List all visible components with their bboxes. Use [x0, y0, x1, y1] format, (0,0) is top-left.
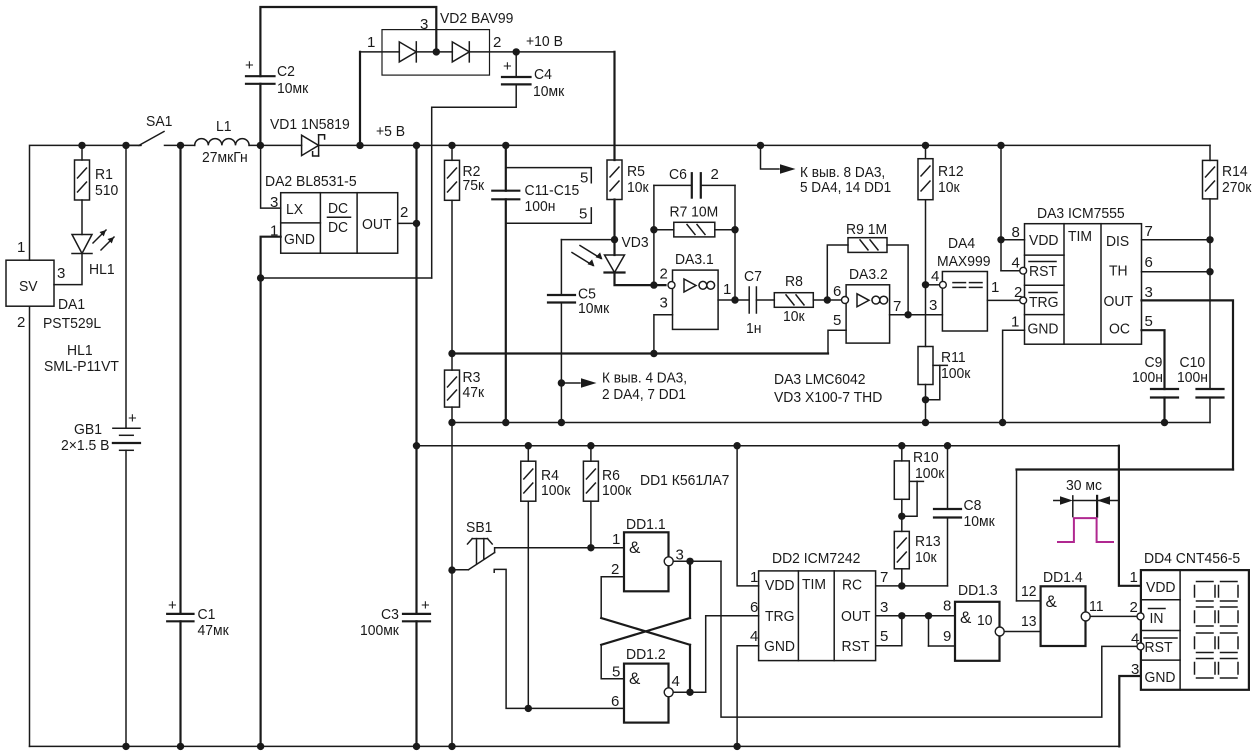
wire DA1 pin3 to HL1: [54, 254, 82, 285]
wire C4 bottom hook to ground column: [432, 84, 517, 278]
pin 6 DA3.2: [842, 297, 849, 304]
svg-text:TIM: TIM: [802, 576, 826, 593]
svg-text:C4: C4: [534, 66, 552, 83]
svg-text:1: 1: [723, 281, 731, 298]
node DA3.1 pin2 junction: [650, 281, 657, 288]
node R6 top: [587, 442, 594, 449]
diode VD2.1: [360, 51, 399, 53]
svg-text:4: 4: [750, 628, 758, 645]
svg-text:27мкГн: 27мкГн: [202, 149, 248, 166]
capacitor C7: [748, 287, 750, 313]
svg-text:DIS: DIS: [1106, 233, 1129, 250]
svg-text:OUT: OUT: [362, 216, 392, 233]
svg-text:VD2 BAV99: VD2 BAV99: [440, 10, 513, 27]
svg-text:R14: R14: [1222, 163, 1248, 180]
wire digital rail to DD4 VDD: [1119, 446, 1141, 586]
wire R6 bottom to DD1.1 pin1 wire: [590, 501, 592, 548]
node DA4 pin4 junction: [922, 281, 929, 288]
svg-text:C11-C15: C11-C15: [525, 182, 580, 199]
capacitor C5: [548, 294, 575, 296]
node R9 left junction: [824, 296, 831, 303]
svg-text:C2: C2: [277, 63, 295, 80]
svg-text:R8: R8: [785, 273, 803, 290]
wire SA1 to C1 node: [165, 144, 195, 146]
node R3 bottom on gnd rail: [448, 419, 455, 426]
svg-text:4: 4: [1012, 255, 1020, 272]
waveform pulse: [1058, 518, 1113, 542]
svg-text:R12: R12: [938, 163, 964, 180]
svg-text:1: 1: [991, 279, 999, 296]
wire +5V / C3 column: [415, 145, 417, 614]
svg-text:RST: RST: [1029, 263, 1057, 280]
wire R10 tap: [909, 480, 923, 482]
node R9 right on DA3.2 output: [904, 311, 911, 318]
wire SB1 lower contact to DD1.2 pin6: [494, 569, 624, 708]
node DD2 GND on bottom rail: [733, 743, 740, 750]
svg-text:7: 7: [1145, 223, 1153, 240]
node R2/R3 reference junction: [448, 350, 455, 357]
wire L1 to VD1: [249, 144, 302, 146]
node VD2 pin3 junction: [433, 48, 440, 55]
diode VD1 1N5819: [302, 135, 319, 155]
svg-text:R9 1M: R9 1M: [846, 221, 887, 238]
svg-text:47к: 47к: [463, 384, 485, 401]
wire R3 bottom / SB1 column: [451, 407, 453, 746]
svg-text:DA1: DA1: [58, 296, 85, 313]
svg-text:100к: 100к: [915, 465, 945, 482]
wire VDD riser: [1000, 145, 1002, 270]
node R12 top on rail: [922, 142, 929, 149]
svg-text:R1: R1: [95, 166, 113, 183]
node DA3.1 pin3 on reference line: [650, 350, 657, 357]
node +10V junction: [513, 48, 520, 55]
svg-text:DC: DC: [328, 200, 348, 217]
node R7 left junction: [650, 226, 657, 233]
node R4 on pin6 wire: [525, 705, 532, 712]
wire R2 bottom to reference line: [451, 200, 453, 353]
svg-text:2: 2: [1130, 599, 1138, 616]
svg-text:3: 3: [1145, 284, 1153, 301]
svg-text:1: 1: [367, 34, 375, 51]
svg-text:3: 3: [57, 265, 65, 282]
svg-text:HL1: HL1: [67, 342, 93, 359]
svg-text:100н: 100н: [1132, 369, 1163, 386]
node VD3 cathode junction: [611, 236, 618, 243]
svg-text:&: &: [629, 538, 641, 557]
svg-text:VD3 X100-7 THD: VD3 X100-7 THD: [774, 389, 882, 406]
svg-text:GND: GND: [1145, 669, 1176, 686]
wire analog gnd rail: [452, 422, 1210, 424]
wire VD3 anode to DA3.1 pin2: [615, 273, 666, 286]
LED HL1: [72, 235, 92, 254]
resistor R6: [590, 446, 592, 462]
svg-text:10мк: 10мк: [533, 83, 565, 100]
svg-text:SML-P11VT: SML-P11VT: [44, 358, 119, 375]
wire R5 to VD3: [613, 200, 615, 256]
svg-text:PST529L: PST529L: [43, 315, 101, 332]
node DD1.1 output junction: [686, 558, 693, 565]
wire C5 branch: [561, 239, 614, 241]
wire C1 column: [179, 145, 181, 614]
svg-text:+5 В: +5 В: [376, 123, 405, 140]
svg-text:1: 1: [17, 239, 25, 256]
arrow to pins 8 DA3, 5 DA4, 14 DD1: [757, 142, 764, 149]
wire C5 bottom to gnd rail: [560, 303, 562, 423]
svg-text:GND: GND: [764, 638, 795, 655]
node C11-C15 top on rail: [502, 142, 509, 149]
node DD2 VDD riser on digital rail: [733, 442, 740, 449]
node R6 on pin1 wire: [587, 544, 594, 551]
svg-text:SV: SV: [19, 278, 38, 295]
svg-text:3: 3: [880, 599, 888, 616]
svg-text:5: 5: [833, 312, 841, 329]
svg-text:47мк: 47мк: [198, 622, 230, 639]
svg-text:3: 3: [660, 295, 668, 312]
resistor R13: [894, 531, 909, 568]
svg-text:2 DA4, 7 DD1: 2 DA4, 7 DD1: [602, 386, 686, 403]
svg-text:10мк: 10мк: [277, 80, 309, 97]
wire GB1 bottom: [125, 450, 127, 746]
pin 10 DD1.3 output: [995, 627, 1004, 636]
wire R1 to HL1: [81, 200, 83, 235]
node DA3.1 output junction: [731, 296, 738, 303]
svg-text:C8: C8: [964, 497, 982, 514]
svg-text:VDD: VDD: [765, 577, 795, 594]
svg-text:DD1.1: DD1.1: [626, 516, 666, 533]
svg-text:6: 6: [750, 599, 758, 616]
inductor L1: [195, 139, 249, 146]
wire DA2 GND down: [261, 237, 281, 747]
svg-text:5: 5: [580, 170, 588, 187]
svg-text:10к: 10к: [627, 179, 649, 196]
svg-text:MAX999: MAX999: [937, 253, 991, 270]
resistor R4: [527, 446, 529, 462]
node R4 top: [525, 442, 532, 449]
svg-text:DA3.1: DA3.1: [675, 251, 714, 268]
svg-text:R7 10M: R7 10M: [670, 204, 719, 221]
svg-text:2: 2: [17, 314, 25, 331]
svg-text:6: 6: [833, 283, 841, 300]
svg-text:DC: DC: [328, 219, 348, 236]
svg-text:RST: RST: [842, 638, 870, 655]
node C1 bottom junction: [177, 743, 184, 750]
svg-text:VDD: VDD: [1029, 232, 1059, 249]
wire +10V to R5 column: [516, 51, 614, 53]
svg-text:2: 2: [711, 166, 719, 183]
wire bottom ground rail: [30, 745, 1120, 747]
svg-text:DA4: DA4: [948, 235, 975, 252]
svg-text:100н: 100н: [525, 198, 556, 215]
svg-text:К выв. 4 DA3,: К выв. 4 DA3,: [602, 370, 687, 387]
svg-text:100к: 100к: [541, 482, 571, 499]
svg-text:6: 6: [1145, 254, 1153, 271]
photodiode VD3: [605, 255, 625, 273]
svg-text:5: 5: [1145, 313, 1153, 330]
svg-text:R11: R11: [941, 349, 966, 366]
svg-text:OUT: OUT: [841, 608, 871, 625]
svg-text:DD1.3: DD1.3: [958, 582, 998, 599]
diode pair VD2 BAV99: [382, 30, 490, 76]
svg-text:30 мс: 30 мс: [1066, 477, 1102, 494]
svg-text:GB1: GB1: [74, 421, 102, 438]
svg-text:2: 2: [660, 266, 668, 283]
svg-text:1: 1: [750, 569, 758, 586]
node R13 bottom on RC: [898, 582, 905, 589]
IC DA1 SV box: [6, 260, 54, 306]
capacitor C4: [515, 52, 517, 77]
svg-text:R10: R10: [913, 449, 939, 466]
resistor R2: [451, 145, 453, 160]
arrow to pins 4 DA3, 2 DA4, 7 DD1: [561, 382, 580, 384]
svg-text:1: 1: [612, 531, 620, 548]
svg-text:RST: RST: [1145, 639, 1173, 656]
node DD1.2 output junction: [686, 689, 693, 696]
wire GB1 top: [125, 145, 127, 428]
wire DA2 LX to L1 node: [261, 145, 281, 208]
svg-text:TIM: TIM: [1068, 228, 1092, 245]
node DA2 GND / C4 return junction: [257, 274, 264, 281]
diode VD2.2: [416, 51, 452, 53]
svg-text:100н: 100н: [1177, 369, 1208, 386]
node DD2 OUT to RST jumper: [898, 612, 905, 619]
wire VD2 pin1 drop to +5V: [359, 52, 361, 145]
node C8 top on digital rail: [944, 442, 951, 449]
node DA2 OUT junction: [413, 220, 420, 227]
wire ground link DA2 to C4 column: [261, 277, 432, 279]
svg-text:270к: 270к: [1222, 179, 1252, 196]
svg-text:3: 3: [420, 16, 428, 33]
svg-text:7: 7: [880, 569, 888, 586]
svg-text:10: 10: [977, 612, 993, 629]
wire DA3.1 feedback left riser: [653, 185, 655, 285]
node C9 on gnd rail: [1161, 419, 1168, 426]
resistor R10 trimmer: [901, 446, 903, 461]
svg-text:DA3 LMC6042: DA3 LMC6042: [774, 371, 866, 388]
svg-text:1: 1: [1130, 569, 1138, 586]
svg-text:4: 4: [931, 268, 939, 285]
node GB1 top junction: [122, 142, 129, 149]
svg-text:DD2 ICM7242: DD2 ICM7242: [772, 550, 860, 567]
svg-text:510: 510: [95, 182, 118, 199]
node R10 top on digital rail: [898, 442, 905, 449]
wire R9 feedback: [827, 245, 848, 300]
node digital rail start: [413, 442, 420, 449]
svg-text:4: 4: [672, 673, 680, 690]
resistor R12: [925, 145, 927, 158]
svg-text:&: &: [960, 608, 972, 627]
svg-text:&: &: [1046, 592, 1058, 611]
svg-text:DA3 ICM7555: DA3 ICM7555: [1037, 205, 1125, 222]
svg-text:VD1 1N5819: VD1 1N5819: [270, 116, 350, 133]
svg-text:+: +: [421, 597, 430, 614]
node DA3 GND on gnd rail: [999, 419, 1006, 426]
node DA2 GND bottom rail: [257, 743, 264, 750]
svg-text:DD1.2: DD1.2: [626, 646, 666, 663]
wire R12 bottom to DA4 pin4: [925, 200, 927, 347]
capacitor C1: [167, 613, 193, 615]
display segments: [1195, 582, 1239, 679]
node C1 top junction: [177, 142, 184, 149]
svg-text:9: 9: [943, 628, 951, 645]
svg-text:11: 11: [1089, 598, 1104, 615]
svg-text:SB1: SB1: [466, 519, 492, 536]
svg-text:100к: 100к: [941, 365, 971, 382]
svg-text:DD4 CNT456-5: DD4 CNT456-5: [1144, 550, 1240, 567]
wire left border / SV pin1 pin2 chain: [30, 145, 142, 260]
wire +5V digital rail: [417, 445, 1119, 447]
wire C2 bottom to rail: [259, 84, 261, 146]
wire DD4 GND to bottom rail: [1119, 676, 1141, 746]
svg-text:10мк: 10мк: [964, 513, 996, 530]
svg-text:5: 5: [579, 206, 587, 223]
svg-text:OC: OC: [1109, 321, 1130, 338]
node GB1 bottom junction: [122, 743, 129, 750]
svg-text:100к: 100к: [602, 482, 632, 499]
capacitor bank C11-C15: [505, 145, 507, 190]
resistor R11 trimmer: [918, 347, 933, 385]
node C5 gnd arrow tap: [558, 379, 565, 386]
wire reference line: [452, 352, 828, 354]
svg-text:LX: LX: [286, 201, 303, 218]
svg-text:1н: 1н: [746, 320, 762, 337]
svg-text:DA3.2: DA3.2: [849, 266, 888, 283]
svg-text:C3: C3: [381, 606, 399, 623]
svg-text:C6: C6: [669, 166, 687, 183]
svg-text:SA1: SA1: [146, 113, 172, 130]
svg-text:12: 12: [1021, 583, 1037, 600]
capacitor C8: [947, 446, 949, 509]
svg-text:C1: C1: [198, 606, 216, 623]
wire DA3 OUT to DD1.4 pin12: [1017, 468, 1234, 470]
node R11 on gnd rail: [922, 419, 929, 426]
svg-text:13: 13: [1021, 613, 1037, 630]
svg-text:TRG: TRG: [1029, 294, 1059, 311]
svg-text:RC: RC: [842, 577, 862, 594]
resistor R14: [1209, 145, 1211, 160]
svg-text:DD1.4: DD1.4: [1043, 569, 1083, 586]
pin 2 DA3.1: [668, 282, 675, 289]
svg-text:L1: L1: [216, 118, 232, 135]
svg-text:GND: GND: [1028, 321, 1059, 338]
svg-text:VDD: VDD: [1146, 579, 1176, 596]
svg-text:+: +: [168, 597, 177, 614]
svg-text:10к: 10к: [938, 179, 960, 196]
svg-text:DA2 BL8531-5: DA2 BL8531-5: [265, 173, 357, 190]
svg-text:TH: TH: [1109, 263, 1128, 280]
svg-text:3: 3: [929, 297, 937, 314]
svg-text:1: 1: [1011, 314, 1019, 331]
svg-text:TRG: TRG: [765, 608, 795, 625]
svg-text:10мк: 10мк: [578, 300, 610, 317]
svg-text:&: &: [629, 669, 641, 688]
svg-text:+: +: [503, 58, 512, 75]
svg-text:+: +: [128, 410, 137, 427]
pin 4 DA4: [940, 281, 947, 288]
node C3 column on +5V rail: [413, 142, 420, 149]
node R10 bottom junction: [898, 513, 905, 520]
capacitor C6: [654, 184, 692, 186]
wire latch cross-coupling: [601, 618, 690, 645]
svg-text:7: 7: [893, 298, 901, 315]
wire DA2 OUT to +5V column: [398, 222, 417, 224]
resistor R5: [607, 160, 622, 200]
capacitor C3: [403, 613, 430, 615]
svg-text:2×1.5 В: 2×1.5 В: [61, 437, 110, 454]
svg-text:+: +: [245, 57, 254, 74]
node R7 right junction: [731, 226, 738, 233]
wire C2 / VD2 top link: [260, 7, 436, 76]
wire SB1 upper contact to DD1.1 pin1: [495, 548, 624, 553]
node R1 top junction: [78, 142, 85, 149]
node SB1 column bottom rail: [448, 743, 455, 750]
wire +5V rail: [319, 144, 1210, 146]
node C5 bottom on gnd rail: [558, 419, 565, 426]
svg-text:R13: R13: [915, 533, 941, 550]
svg-text:10к: 10к: [783, 308, 805, 325]
svg-text:100мк: 100мк: [360, 622, 399, 639]
svg-text:5 DA4, 14 DD1: 5 DA4, 14 DD1: [800, 179, 891, 196]
svg-text:6: 6: [611, 693, 619, 710]
svg-text:+10 В: +10 В: [526, 33, 563, 50]
wire DD1.1 output long run to DD4 RST: [721, 561, 1137, 717]
svg-text:2: 2: [611, 561, 619, 578]
node C3 bottom rail: [413, 743, 420, 750]
svg-text:IN: IN: [1150, 610, 1164, 627]
svg-text:2: 2: [400, 204, 408, 221]
capacitor C2: [246, 75, 275, 77]
node C2/LX junction: [257, 142, 264, 149]
wire DD1.2 output to DD2 TRG: [706, 616, 759, 693]
svg-text:10к: 10к: [915, 549, 937, 566]
wire R11 tap: [933, 364, 947, 366]
svg-text:HL1: HL1: [89, 261, 115, 278]
switch SA1: [126, 144, 140, 146]
wire DA3.1 feedback right riser: [734, 185, 736, 300]
svg-text:5: 5: [612, 664, 620, 681]
svg-text:75к: 75к: [463, 177, 485, 194]
svg-text:C7: C7: [744, 268, 762, 285]
node VD2 pin1 on rail: [356, 142, 363, 149]
svg-text:OUT: OUT: [1104, 293, 1134, 310]
svg-text:R5: R5: [627, 163, 645, 180]
resistor R1: [75, 160, 90, 200]
svg-text:8: 8: [943, 598, 951, 615]
svg-text:GND: GND: [284, 231, 315, 248]
svg-text:DD1 К561ЛА7: DD1 К561ЛА7: [640, 472, 729, 489]
wire R4 bottom to DD1.2 pin6 line: [527, 501, 529, 708]
node R2 top on rail: [448, 142, 455, 149]
capacitor C10: [1197, 388, 1224, 390]
wire R1 top: [81, 145, 83, 160]
node R11 bottom junction: [922, 396, 929, 403]
svg-text:5: 5: [880, 628, 888, 645]
node DD1.3 input tie: [925, 612, 932, 619]
battery GB1: [113, 427, 140, 429]
svg-text:2: 2: [493, 34, 501, 51]
capacitor C9: [1151, 388, 1178, 390]
node C11-C15 bottom on gnd rail: [502, 419, 509, 426]
svg-text:8: 8: [1012, 224, 1020, 241]
wire R14 bottom / C10 column: [1209, 199, 1211, 389]
resistor R3: [451, 354, 453, 371]
node SB1 tap: [448, 566, 455, 573]
svg-text:VD3: VD3: [622, 234, 649, 251]
